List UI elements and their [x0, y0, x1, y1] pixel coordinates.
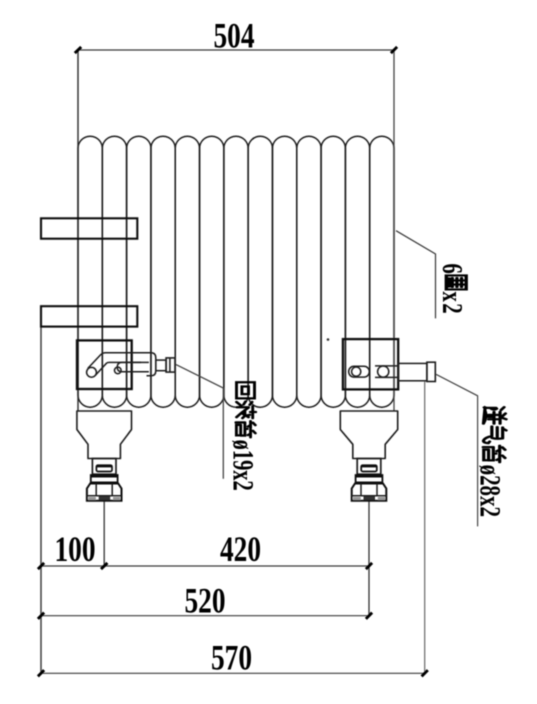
- svg-text:x2: x2: [436, 291, 468, 315]
- svg-text:520: 520: [184, 581, 225, 620]
- svg-text:ø19x2: ø19x2: [226, 440, 260, 491]
- svg-text:100: 100: [54, 529, 95, 568]
- svg-text:ø28x2: ø28x2: [474, 465, 508, 517]
- svg-text:420: 420: [220, 529, 261, 568]
- svg-text:6: 6: [436, 263, 468, 273]
- svg-text:504: 504: [213, 16, 254, 55]
- svg-text:570: 570: [211, 638, 252, 677]
